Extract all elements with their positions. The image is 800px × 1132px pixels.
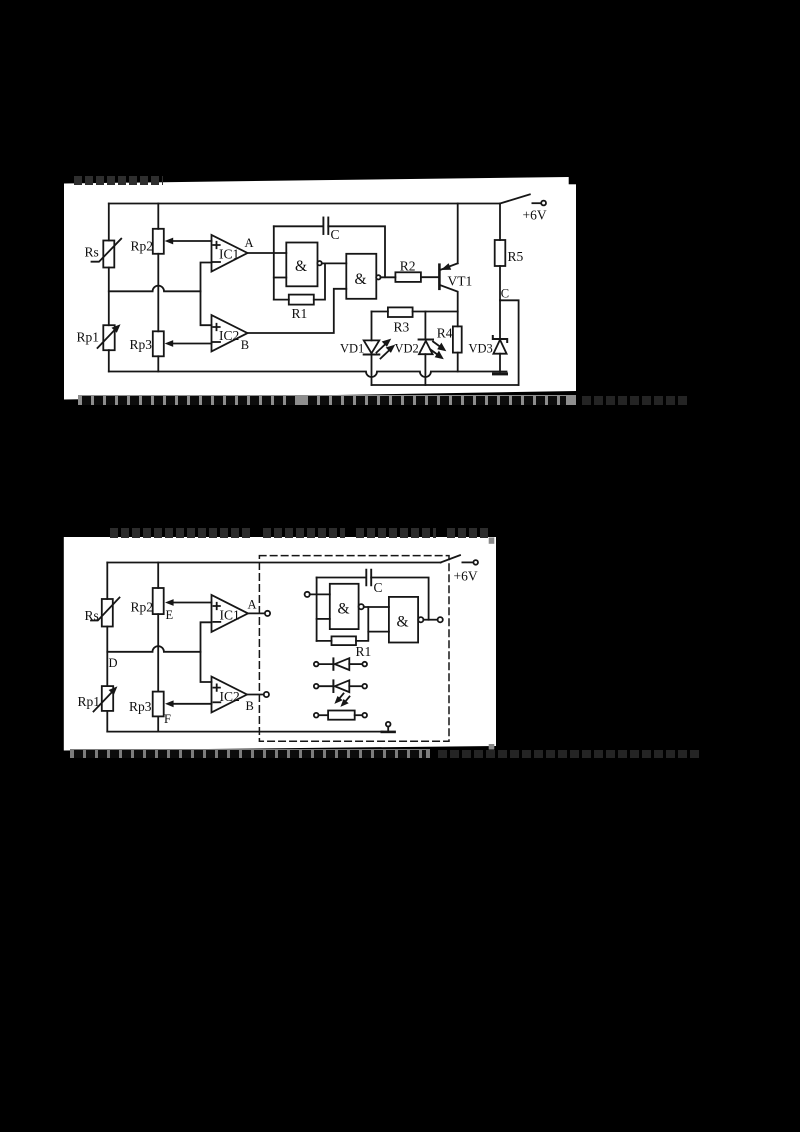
resistor R5 [495,204,506,301]
caption text below panel2 run1 [74,750,426,758]
LED VD1 [364,312,380,386]
op-amp IC1 panel2 [212,595,249,632]
wire capacitor to NAND2 output [328,226,385,277]
heading text above panel2 run1 [110,528,252,538]
node C wire [500,300,519,385]
resistor R1 panel2 [317,607,369,645]
NAND gate 2 [346,254,380,299]
svg-text:IC2: IC2 [220,689,240,704]
PANEL1 [64,177,576,400]
wire bottom ground rail with hops [109,372,507,378]
VD1 emission arrows [377,339,396,359]
PANEL2 [64,537,496,751]
wire capacitor to NAND2 output panel2 [371,578,428,620]
heading text above panel2 run4 [447,528,490,538]
svg-text:VT1: VT1 [448,274,473,289]
potentiometer Rp1 panel2 [94,686,118,711]
terminal A output [248,611,270,616]
VD2 emission arrows [431,342,447,360]
wire node B to NAND2 lower input [248,289,347,333]
svg-text:R1: R1 [356,644,372,659]
wire top supply rail [109,203,500,205]
wire NAND2 lower input panel2 [368,631,389,633]
caption text below panel1 run1 [82,396,298,405]
VD3 junction bar [494,372,507,375]
op-amp IC2 panel2 [212,677,248,713]
svg-text:C: C [331,227,340,242]
wire NAND1 out to NAND2 panel2 [364,606,389,608]
svg-text:F: F [164,712,171,726]
capacitor C panel2 [366,570,371,586]
transistor VT1 [439,204,457,327]
svg-text:C: C [374,580,383,595]
svg-text:B: B [241,338,249,352]
terminal NAND1 input [305,592,330,597]
svg-text:Rp3: Rp3 [130,337,153,352]
svg-text:IC1: IC1 [219,247,239,262]
wire NAND1 out to NAND2 in [322,262,347,264]
svg-text:Rp3: Rp3 [129,699,152,714]
potentiometer Rp3 panel2 [153,692,164,717]
potentiometer Rp2 [153,229,164,254]
caption text below panel1 run2 [308,396,566,405]
potentiometer Rp1 [98,324,121,350]
op-amp IC1 [212,235,248,272]
svg-text:VD2: VD2 [395,342,419,356]
svg-text:&: & [338,601,350,618]
svg-text:A: A [245,236,254,250]
svg-text:Rp1: Rp1 [77,330,100,345]
wire feedback vertical node A [273,226,275,299]
svg-text:Rs: Rs [85,245,99,260]
resistor row3 [314,711,367,720]
wire IC1 inverting input panel2 [201,622,212,682]
heading text above panel2 run2 [263,528,345,538]
svg-text:Rp1: Rp1 [78,694,101,709]
resistor R1 [274,263,325,304]
NAND gate 2 panel2 [389,597,424,643]
svg-text:+6V: +6V [523,208,547,223]
wire Rp3 wiper to IC2 inverting input [165,340,212,347]
wire Rp3 wiper to IC2 inverting input panel2 [165,700,212,707]
caption strip below panel1 [78,395,576,405]
svg-text:IC2: IC2 [219,328,239,343]
caption strip below panel2 [70,749,430,759]
NAND gate 1 panel2 [330,584,364,629]
ground terminal [382,722,395,732]
zener diode VD3 [493,300,507,371]
potentiometer Rp2 panel2 [153,588,164,614]
svg-text:Rp2: Rp2 [131,239,154,254]
potentiometer Rp3 [153,331,164,356]
thermistor Rs [92,239,122,268]
wire node A to NAND1 [248,252,287,254]
svg-text:VD1: VD1 [340,342,364,356]
PANEL1-NOTCH [569,177,576,185]
wire collector node to R3 [413,311,458,313]
svg-text:VD3: VD3 [469,342,493,356]
svg-text:Rs: Rs [85,608,99,623]
svg-text:IC1: IC1 [220,608,240,623]
svg-text:&: & [295,258,307,275]
wire Rp2 branch vertical panel2 [157,563,159,732]
switch S1 [500,194,546,205]
wire feedback vertical panel2 [316,578,318,641]
dashed IC boundary box [259,556,449,742]
caption text below panel2 run2 dark [438,750,700,758]
resistor R3 [372,307,413,317]
wire to capacitor C panel2 [317,577,366,579]
svg-text:C: C [501,287,509,301]
svg-text:E: E [166,608,174,622]
svg-text:&: & [355,271,367,288]
LED row2 [314,680,367,692]
terminal NAND2 output [423,617,442,622]
op-amp IC2 [212,315,248,351]
wire mid rail with hop over Rp2 line [109,286,201,292]
LED row2 emission arrows [334,694,349,707]
NAND gate 1 [286,243,322,287]
heading text above panel1 [74,176,163,185]
svg-text:Rp2: Rp2 [131,600,154,615]
svg-text:R2: R2 [400,259,416,274]
wire mid rail with hop panel2 [107,646,200,652]
svg-text:&: & [397,614,409,631]
thermistor Rs panel2 [91,598,120,627]
capacitor C [323,218,328,235]
wire IC1 inverting input [201,263,212,326]
svg-text:+6V: +6V [454,569,478,584]
svg-text:B: B [246,699,254,713]
svg-text:D: D [109,656,118,670]
wire NAND2 output [381,276,396,278]
wire Rp2 wiper to IC1 + input [165,238,212,245]
wire lower return to node C [372,384,519,386]
terminal B output [247,692,269,697]
svg-text:R3: R3 [394,320,410,335]
wire top supply rail panel2 [107,562,440,564]
heading text above panel2 run3 [356,528,436,538]
wire left branch vertical [108,204,110,372]
caption text below panel1 run3 dark [582,396,690,405]
svg-text:R1: R1 [292,306,308,321]
wire NAND1 lower input panel2 [317,618,330,620]
svg-text:R5: R5 [508,249,524,264]
resistor R2 [395,272,438,282]
wire Rp2 branch vertical [157,204,159,372]
diode D row1 [314,658,367,670]
switch S panel2 [441,555,478,565]
svg-text:A: A [248,598,257,612]
wire Rp2 wiper to IC1 + input panel2 [165,599,212,606]
wire to capacitor C [274,225,323,227]
wire left branch vertical panel2 [106,563,108,732]
LED VD2 [419,312,433,386]
resistor R4 [453,326,462,371]
wire bottom rail panel2 [107,731,382,733]
wire NAND1 lower input [274,277,287,279]
svg-text:R4: R4 [437,326,453,341]
